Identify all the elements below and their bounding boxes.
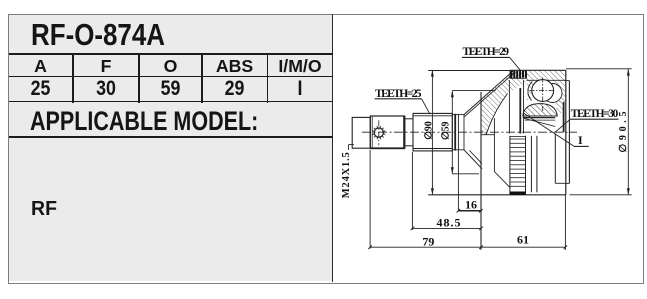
svg-text:M24X1.5: M24X1.5 xyxy=(341,152,352,198)
table line below applicable model xyxy=(9,136,333,138)
spline section TEETH=25 xyxy=(413,113,452,150)
hatch over ball zone xyxy=(527,71,566,80)
svg-text:∅90.5: ∅90.5 xyxy=(618,112,629,153)
bell inner wall curve xyxy=(486,94,507,135)
value cell F=30 xyxy=(78,77,134,101)
svg-text:TEETH=25: TEETH=25 xyxy=(375,88,422,100)
column divider F/O xyxy=(138,53,140,103)
applicable model label xyxy=(30,106,258,137)
table line below title xyxy=(9,53,333,55)
drawing labels xyxy=(341,46,629,248)
cage side arc xyxy=(543,84,562,103)
svg-text:TEETH=29: TEETH=29 xyxy=(463,46,510,58)
svg-text:79: 79 xyxy=(422,234,434,248)
table line below header row xyxy=(9,76,333,78)
serration band edges xyxy=(509,71,511,79)
dim d90.5 xyxy=(627,69,629,195)
cone hatch xyxy=(463,71,529,135)
cone inner wall line xyxy=(464,73,513,117)
header cell O xyxy=(139,56,202,77)
header cell A xyxy=(8,56,73,77)
applicable model value RF xyxy=(31,198,57,221)
neck xyxy=(404,118,413,120)
cage outer edge xyxy=(527,79,566,81)
race verticals below center xyxy=(530,136,532,193)
dim 48.5 xyxy=(411,152,413,230)
housing right face xyxy=(565,70,567,195)
M24X1.5 leader xyxy=(348,145,350,150)
column divider A/F xyxy=(72,53,74,103)
TEETH=25 leader xyxy=(375,98,422,100)
value cell ABS=29 xyxy=(207,77,262,101)
value cell I/M/O=I xyxy=(272,77,328,101)
dim 16 xyxy=(457,151,459,211)
svg-text:48.5: 48.5 xyxy=(437,215,461,229)
header cell F xyxy=(73,56,139,77)
dim d90 xyxy=(431,70,433,195)
column divider O/ABS xyxy=(201,53,203,103)
cage left arc xyxy=(528,82,532,101)
boot groove band on shaft xyxy=(454,114,456,151)
I leader xyxy=(523,113,574,146)
header cell ABS xyxy=(202,56,267,77)
title RF-O-874A xyxy=(31,17,165,53)
svg-text:61: 61 xyxy=(517,233,529,247)
cone outer bottom xyxy=(464,150,482,169)
value cell O=59 xyxy=(144,77,198,101)
dim d59 xyxy=(451,91,453,174)
pin hole xyxy=(374,128,383,137)
thread section M24X1.5 xyxy=(352,117,370,148)
serration teeth TEETH=29 xyxy=(510,71,526,78)
svg-text:I: I xyxy=(578,133,583,147)
housing bottom + ext xyxy=(428,194,566,196)
table right border xyxy=(332,14,334,282)
cone outer top xyxy=(464,71,513,115)
pin section xyxy=(370,116,404,149)
table line below value row xyxy=(9,101,333,103)
inner race dome xyxy=(523,104,558,116)
svg-text:16: 16 xyxy=(465,197,477,211)
inner face xyxy=(480,92,482,250)
left gray panel xyxy=(9,15,332,281)
value cell A=25 xyxy=(13,77,68,101)
ladder band xyxy=(509,136,511,195)
dim 79 / 61 xyxy=(369,150,371,249)
svg-text:TEETH=30: TEETH=30 xyxy=(571,108,619,120)
header cell I/M/O xyxy=(267,56,333,77)
centerline xyxy=(362,131,577,133)
column divider ABS/IMO xyxy=(267,53,269,103)
dimensions xyxy=(349,57,632,250)
boot groove zigzag xyxy=(481,134,494,136)
TEETH=30 leader xyxy=(570,118,618,120)
housing top xyxy=(510,69,566,71)
TEETH=29 leader xyxy=(462,56,510,58)
ball xyxy=(532,80,554,102)
boot waist verticals xyxy=(508,80,510,133)
svg-text:∅59: ∅59 xyxy=(440,122,451,141)
svg-text:∅90: ∅90 xyxy=(423,121,434,140)
